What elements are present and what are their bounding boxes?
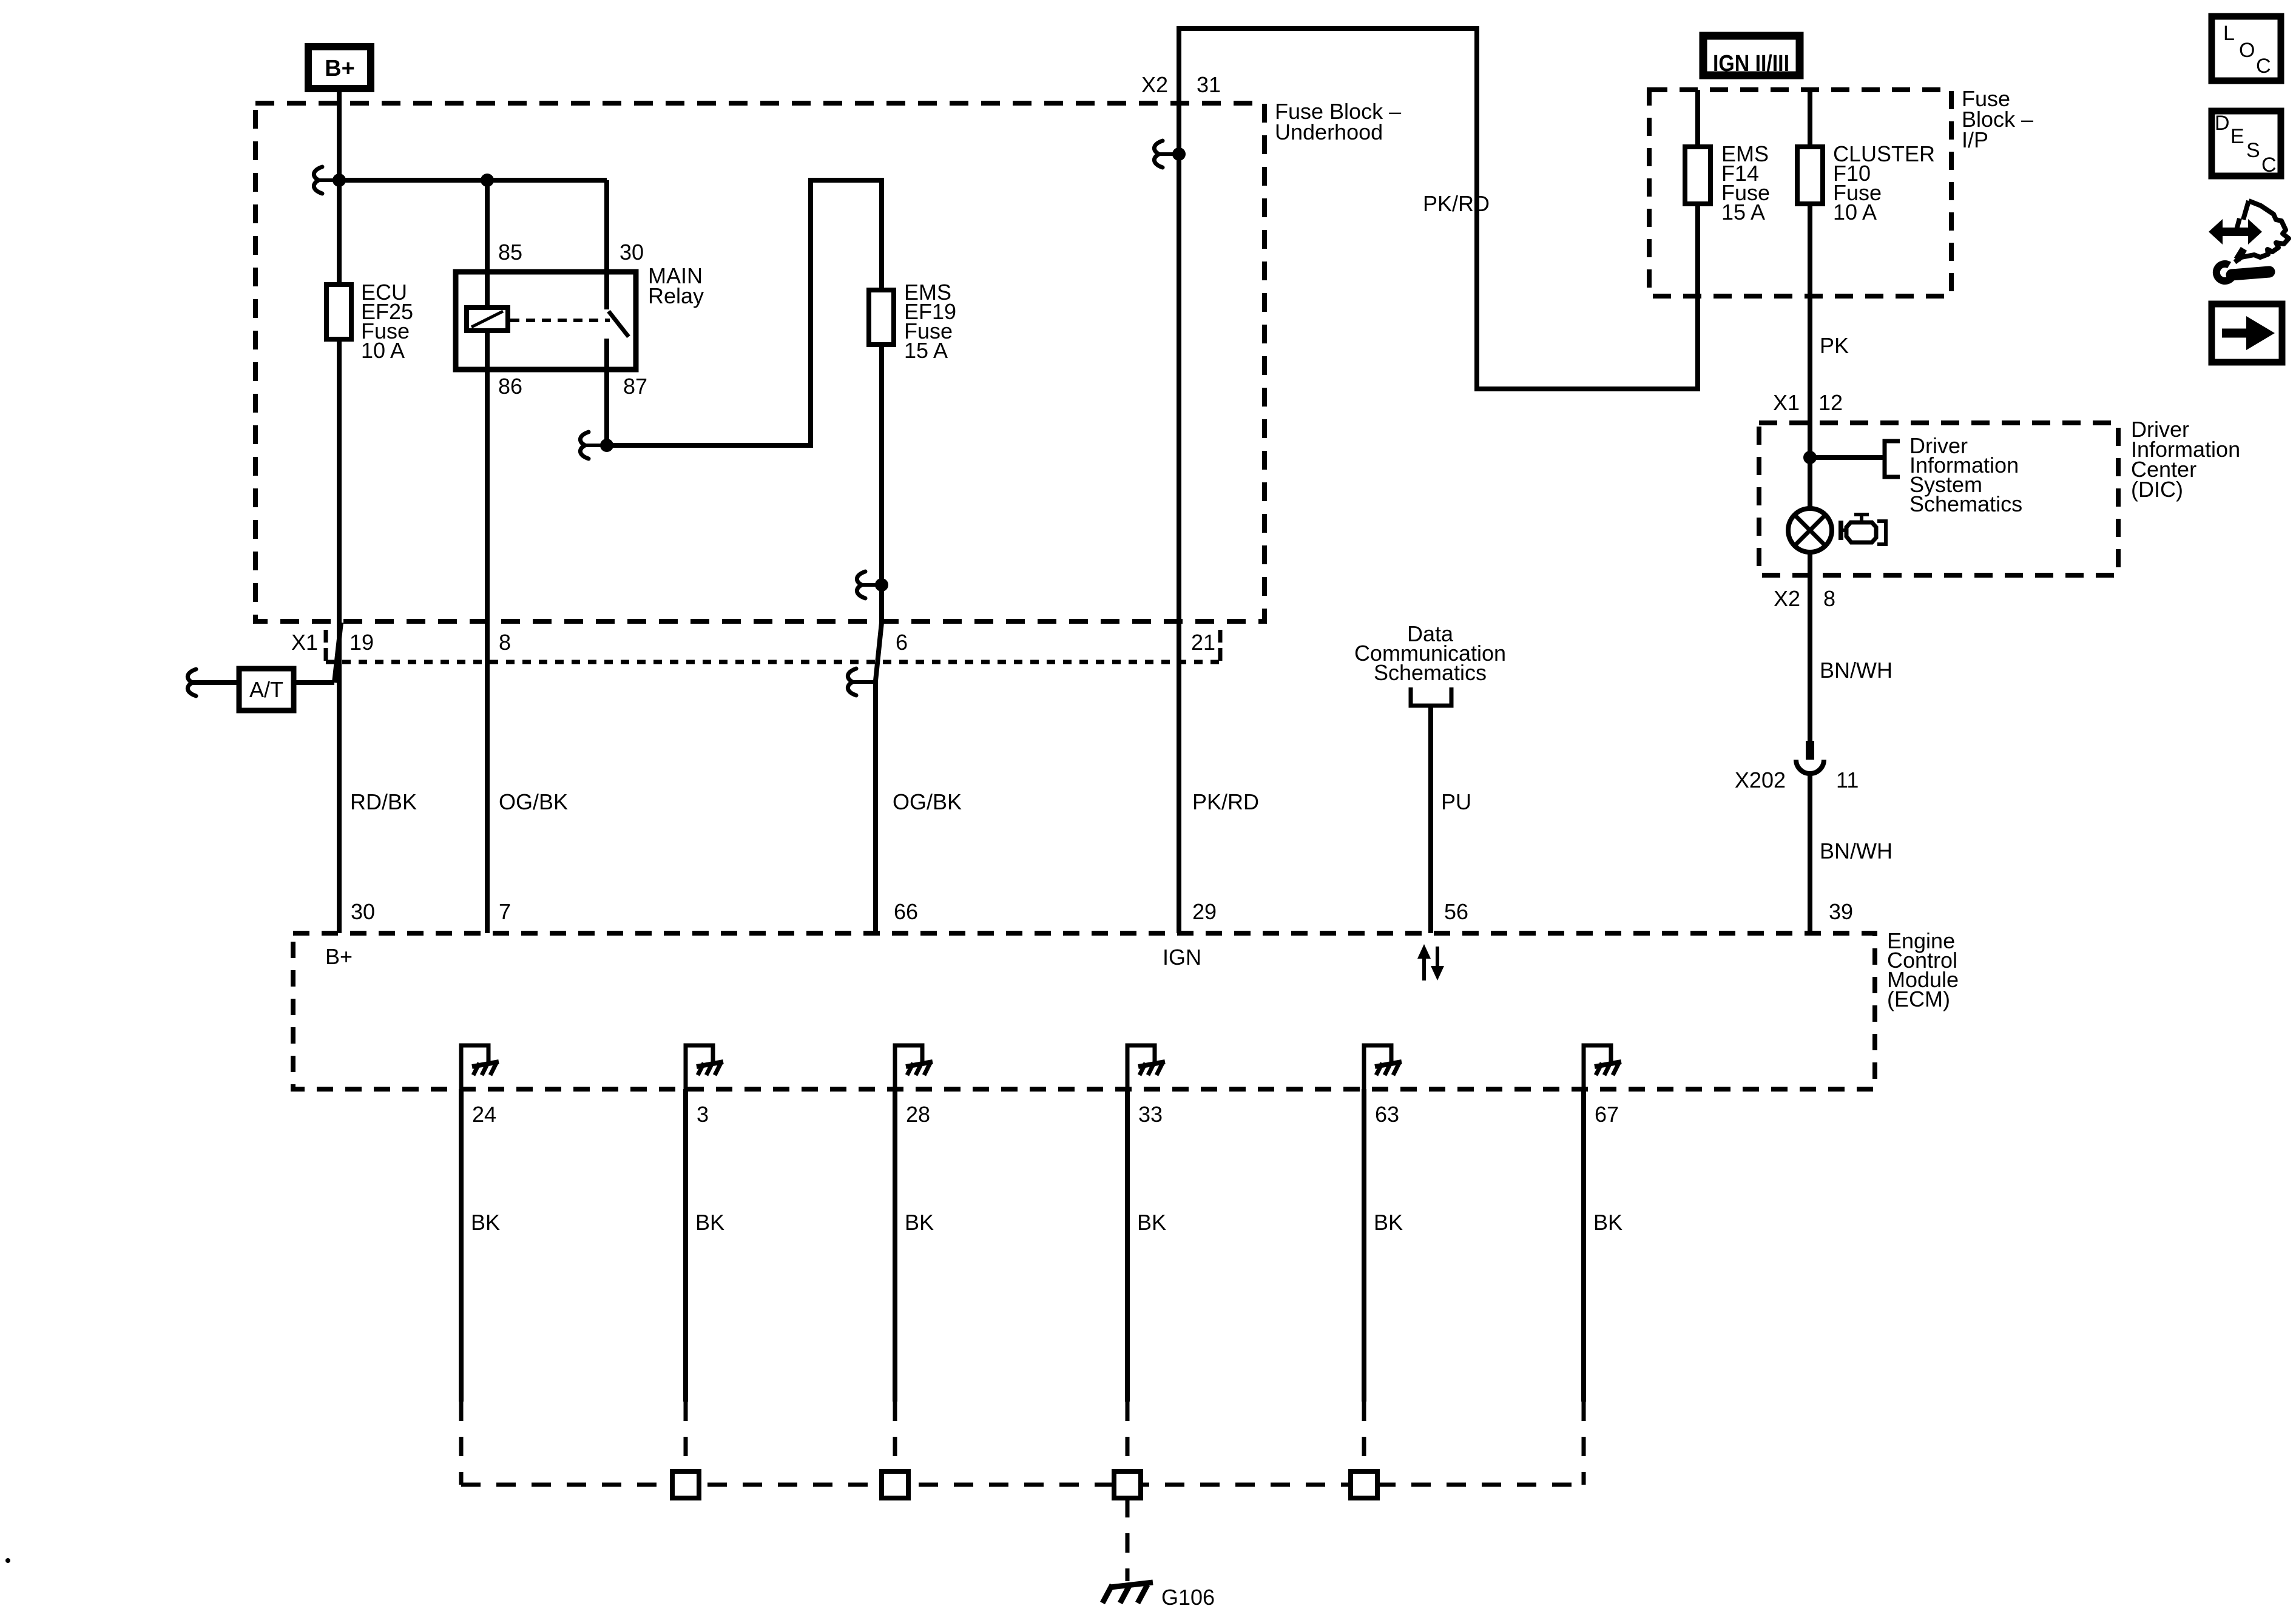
svg-text:24: 24 [472, 1102, 496, 1127]
chassis ground G106 [1110, 1582, 1153, 1587]
svg-text:B+: B+ [325, 944, 353, 969]
relay coil [467, 308, 508, 331]
svg-text:87: 87 [623, 374, 647, 399]
fuse ECU EF25 10 A [326, 285, 351, 339]
svg-text:Relay: Relay [648, 283, 704, 308]
power feed symbol B+ [308, 47, 371, 89]
svg-text:X2: X2 [1774, 586, 1800, 611]
svg-text:66: 66 [894, 899, 918, 924]
svg-text:RD/BK: RD/BK [350, 789, 417, 814]
svg-text:IGN II/III: IGN II/III [1713, 51, 1789, 76]
ECM internal ground pin 3 [686, 1045, 713, 1089]
engine control module dashed box [293, 933, 1875, 1089]
nav icon component location arrows [2220, 228, 2251, 236]
svg-text:31: 31 [1197, 72, 1221, 97]
nav icon arrow box [2212, 304, 2282, 362]
junction node relay output pin 87 [580, 432, 589, 459]
svg-text:10 A: 10 A [361, 338, 405, 363]
wire BK ground 63 [1362, 1089, 1366, 1402]
svg-text:Schematics: Schematics [1374, 660, 1487, 685]
svg-text:86: 86 [498, 374, 522, 399]
wire BN/WH lower to ECM pin 39 [1808, 774, 1812, 933]
svg-text:PU: PU [1441, 789, 1471, 814]
ECM internal ground pin 63 [1364, 1045, 1391, 1089]
clip and junction node at battery feed [314, 167, 322, 194]
svg-text:8: 8 [1823, 586, 1835, 611]
wire BK ground 28 [893, 1089, 897, 1402]
wire: feed bus to relay pin 30 [337, 178, 607, 183]
svg-text:L: L [2223, 22, 2235, 45]
svg-text:O: O [2239, 39, 2255, 62]
svg-text:19: 19 [349, 630, 374, 655]
svg-text:15 A: 15 A [1721, 200, 1765, 224]
off-page bracket DIS [1885, 441, 1900, 477]
junction node relay coil branch [481, 174, 494, 187]
A/T branch clip [187, 669, 196, 696]
wire BK ground 67 [1581, 1089, 1586, 1402]
svg-text:BN/WH: BN/WH [1820, 658, 1893, 683]
svg-text:OG/BK: OG/BK [499, 789, 568, 814]
svg-text:BK: BK [1593, 1210, 1622, 1235]
driver information center dashed box [1759, 423, 2118, 575]
serial data arrows [1422, 956, 1426, 980]
connector X1 line of fuse block [324, 630, 328, 662]
nav icon DESC [2212, 111, 2281, 176]
wire: EMS F14 feed [1695, 90, 1700, 391]
power feed symbol IGN II/III [1703, 36, 1800, 75]
svg-text:12: 12 [1818, 390, 1843, 415]
wire BN/WH upper [1808, 552, 1812, 741]
splice square at 1475 [882, 1471, 908, 1498]
svg-text:B+: B+ [325, 56, 355, 81]
ground bus dashed drop at 1130 [684, 1402, 688, 1471]
svg-text:BN/WH: BN/WH [1820, 839, 1893, 863]
callout box A/T [239, 669, 294, 710]
svg-text:7: 7 [499, 899, 511, 924]
svg-text:A/T: A/T [249, 677, 283, 702]
fuse EMS EF19 15 A [869, 290, 894, 345]
off-page bracket data link [1411, 687, 1451, 706]
svg-text:(ECM): (ECM) [1887, 987, 1950, 1011]
svg-text:BK: BK [1374, 1210, 1403, 1235]
svg-text:Underhood: Underhood [1275, 120, 1383, 144]
fuse block underhood dashed box [255, 103, 1264, 621]
svg-text:C: C [2261, 154, 2277, 177]
wire: branch to driver information system schematics [1810, 455, 1885, 460]
svg-text:E: E [2230, 125, 2244, 148]
fuse block I/P dashed box [1649, 90, 1951, 296]
svg-text:15 A: 15 A [904, 338, 948, 363]
svg-text:X202: X202 [1735, 768, 1786, 792]
svg-text:30: 30 [620, 240, 644, 265]
svg-text:21: 21 [1191, 630, 1215, 655]
svg-text:33: 33 [1138, 1102, 1163, 1127]
wire BK ground 33 [1125, 1089, 1130, 1402]
svg-text:PK: PK [1820, 333, 1849, 358]
ground bus dashed drop at 1858 [1126, 1402, 1130, 1471]
nav icon component outline [2235, 201, 2289, 262]
svg-text:X1: X1 [291, 630, 318, 655]
nav icon LOC [2212, 16, 2281, 81]
svg-text:63: 63 [1375, 1102, 1399, 1127]
svg-text:29: 29 [1192, 899, 1217, 924]
relay switch contact pin 30 [604, 180, 609, 309]
ground bus dashed drop at 2248 [1362, 1402, 1366, 1471]
wire RD/BK: B+ to ECM pin 30 [337, 89, 342, 933]
ECM internal ground pin 24 [461, 1045, 488, 1089]
nav icon wrench [2217, 264, 2232, 281]
wire OG/BK: relay coil pin 86 to ECM pin 7 [485, 180, 490, 933]
svg-text:G106: G106 [1161, 1585, 1215, 1610]
ground bus dashed line [461, 1483, 1584, 1487]
svg-text:X2: X2 [1141, 72, 1168, 97]
wire PK/RD: IGN feed loop through fuse block to ECM pin 29 [1179, 29, 1698, 933]
wire: relay 87 to EMS EF19 fuse [607, 180, 882, 585]
svg-text:I/P: I/P [1962, 127, 1988, 152]
svg-text:X1: X1 [1773, 390, 1800, 415]
svg-text:BK: BK [695, 1210, 724, 1235]
svg-text:D: D [2215, 112, 2230, 135]
junction node DIS branch [1803, 451, 1817, 464]
splice square at 1858 [1114, 1471, 1141, 1498]
wire PK: CLUSTER F10 to DIC [1808, 90, 1812, 510]
ground bus dashed drop at 1475 [893, 1402, 897, 1471]
clip junction node on EMS wire [857, 572, 865, 598]
svg-text:C: C [2256, 55, 2271, 78]
svg-text:IGN: IGN [1163, 945, 1201, 970]
fuse EMS F14 15 A [1685, 147, 1710, 204]
wire to ground G106 dashed [1126, 1498, 1130, 1581]
ground bus dashed drop left [459, 1402, 464, 1485]
svg-text:39: 39 [1829, 899, 1853, 924]
svg-text:85: 85 [498, 240, 522, 265]
svg-text:S: S [2246, 139, 2260, 162]
svg-text:BK: BK [471, 1210, 500, 1235]
wire OG/BK: EMS fuse to ECM pin 66 with connector jog [876, 585, 882, 933]
svg-text:OG/BK: OG/BK [893, 789, 962, 814]
splice square at 1130 [672, 1471, 699, 1498]
splice square at 2248 [1351, 1471, 1377, 1498]
svg-text:8: 8 [499, 630, 511, 655]
clip at connector X1 pin 6 [848, 669, 856, 695]
engine icon [1838, 521, 1843, 540]
svg-text:56: 56 [1444, 899, 1468, 924]
wire: A/T tap [192, 680, 334, 685]
inline connector X202 pin 11 [1806, 741, 1814, 760]
svg-text:6: 6 [896, 630, 908, 655]
svg-text:PK/RD: PK/RD [1192, 789, 1259, 814]
svg-text:BK: BK [905, 1210, 934, 1235]
svg-text:30: 30 [351, 899, 375, 924]
svg-text:28: 28 [906, 1102, 930, 1127]
svg-text:3: 3 [697, 1102, 709, 1127]
ECM internal ground pin 28 [895, 1045, 922, 1089]
wire PU: data link to ECM pin 56 [1428, 706, 1433, 933]
wire BK ground 24 [459, 1089, 464, 1402]
indicator lamp MIL [1788, 508, 1832, 552]
ground bus dashed drop right [1582, 1402, 1586, 1485]
relay control dashed link [510, 319, 610, 322]
relay MAIN box [456, 272, 636, 370]
stray mark [5, 1558, 10, 1563]
wire BK ground 3 [683, 1089, 688, 1402]
svg-text:Schematics: Schematics [1909, 491, 2022, 516]
svg-text:67: 67 [1595, 1102, 1619, 1127]
svg-text:PK/RD: PK/RD [1423, 191, 1490, 216]
svg-text:BK: BK [1137, 1210, 1166, 1235]
svg-text:10 A: 10 A [1833, 200, 1877, 224]
fuse CLUSTER F10 10 A [1797, 147, 1823, 204]
clip junction below pin 31 [1154, 141, 1163, 167]
ECM internal ground pin 67 [1584, 1045, 1611, 1089]
svg-text:11: 11 [1836, 768, 1859, 792]
svg-text:(DIC): (DIC) [2131, 477, 2183, 502]
ECM internal ground pin 33 [1127, 1045, 1155, 1089]
